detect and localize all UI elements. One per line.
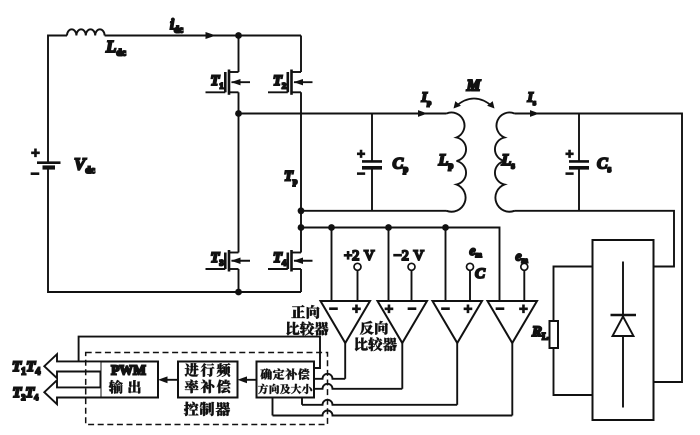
- load resistor RL: [550, 267, 593, 396]
- svg-text:em: em: [470, 243, 483, 259]
- svg-text:+: +: [519, 302, 527, 318]
- wire T1 source to midpoint: [238, 92, 240, 113]
- node dot sense 2: [385, 224, 392, 231]
- wire comparator sense line: [301, 228, 500, 302]
- svg-text:+: +: [352, 302, 360, 318]
- wire T2 source leg: [300, 92, 302, 252]
- output arrow T2T4: [44, 380, 100, 404]
- wire sense to U1: [331, 228, 333, 302]
- node dot sense at leg: [298, 224, 305, 231]
- comparator U1 forward: [321, 301, 371, 343]
- wire bridge to tank top: [239, 113, 447, 115]
- node dot sense 3: [442, 224, 449, 231]
- svg-text:T2: T2: [273, 73, 286, 91]
- wire battery to bottom rail: [48, 168, 301, 293]
- wire U2 output: [401, 343, 403, 389]
- label quedingbuchang: [260, 368, 309, 379]
- svg-text:M: M: [466, 78, 482, 95]
- current arrow Is: [530, 110, 540, 117]
- wire U4 output: [511, 343, 513, 416]
- wire sense to U2: [388, 228, 390, 302]
- svg-text:Cp: Cp: [393, 156, 409, 175]
- dashed controller boundary: [86, 353, 328, 425]
- terminal em C circle: [467, 263, 474, 270]
- transistor T3: [206, 250, 251, 272]
- svg-text:T3: T3: [211, 250, 224, 268]
- label kongzhiqi: [184, 402, 230, 416]
- arrow freq to PWM: [163, 379, 178, 381]
- arrow determine to freq: [242, 379, 257, 381]
- svg-text:+: +: [385, 302, 393, 318]
- svg-text:PWM: PWM: [111, 363, 146, 378]
- wire secondary top: [515, 114, 683, 383]
- terminal +2V circle: [354, 263, 361, 270]
- svg-text:T2T4: T2T4: [13, 385, 39, 402]
- wire T4 source: [300, 269, 302, 292]
- svg-text:−: −: [496, 302, 504, 318]
- wire top rail: [48, 36, 67, 163]
- terminal -2V circle: [408, 263, 415, 270]
- svg-text:T1: T1: [211, 73, 224, 91]
- svg-text:T1T4: T1T4: [12, 359, 40, 378]
- wire U1 output: [344, 343, 346, 379]
- node dot top bridge: [235, 32, 242, 39]
- wire -2V to U2: [411, 271, 413, 301]
- svg-text:−: −: [357, 166, 365, 181]
- transistor T1: [206, 70, 251, 95]
- label shuchu: [109, 380, 141, 394]
- svg-text:Cs: Cs: [597, 156, 612, 175]
- label jinxingpin: [185, 363, 231, 377]
- wire em to U3: [469, 271, 471, 301]
- wire secondary bottom: [515, 211, 675, 267]
- inductor Ls: [495, 113, 515, 212]
- wire midpoint to T3 drain: [238, 114, 240, 253]
- svg-text:Ldc: Ldc: [105, 37, 126, 59]
- svg-text:+: +: [357, 147, 365, 162]
- svg-text:−: −: [329, 302, 337, 318]
- svg-text:Tp: Tp: [284, 169, 298, 187]
- wire +2V to U1: [357, 271, 359, 301]
- svg-text:idc: idc: [170, 17, 183, 35]
- svg-text:+2V: +2V: [344, 248, 375, 264]
- svg-text:−: −: [408, 302, 416, 318]
- wire T3 source: [238, 269, 240, 292]
- wire feedback to gate arrow: [79, 337, 320, 368]
- battery Vdc: [37, 163, 61, 168]
- svg-text:Is: Is: [527, 91, 536, 108]
- wire rail to bridge: [105, 35, 301, 37]
- transistor T2: [268, 70, 313, 95]
- transistor T4: [268, 250, 313, 272]
- output arrow T1T4: [44, 354, 100, 378]
- label zhengxiang bijiaoqi: [291, 305, 319, 319]
- svg-text:−: −: [566, 166, 574, 181]
- inductor Lp: [447, 113, 467, 212]
- node dot tank bottom: [298, 207, 305, 214]
- wire T2 drain: [300, 36, 302, 73]
- svg-text:+: +: [31, 146, 39, 162]
- wire sense to U3: [445, 228, 447, 302]
- diode D: [622, 262, 624, 408]
- block PWM output: [101, 362, 159, 398]
- block determine compensation: [257, 362, 315, 398]
- comparator U3: [433, 301, 483, 343]
- svg-text:+: +: [566, 147, 574, 162]
- rectifier block: [593, 240, 654, 420]
- node dot bottom rail: [235, 289, 242, 296]
- svg-text:−2V: −2V: [394, 248, 425, 264]
- node dot bridge midpoint A: [235, 110, 242, 117]
- svg-text:em: em: [516, 249, 529, 265]
- wire T1 drain: [238, 36, 240, 73]
- capacitor Cp: [362, 114, 382, 211]
- terminal em 4 circle: [521, 263, 528, 270]
- label fanxiang bijiaoqi: [360, 321, 388, 335]
- coupling arrow M: [456, 99, 493, 107]
- svg-text:Lp: Lp: [438, 152, 454, 171]
- inductor Ldc: [67, 29, 105, 35]
- svg-text:C: C: [475, 266, 486, 282]
- block frequency compensation: [178, 362, 238, 398]
- svg-text:+: +: [464, 302, 472, 318]
- svg-text:RL: RL: [531, 324, 548, 342]
- current arrow i_dc: [206, 32, 217, 39]
- capacitor Cs: [569, 114, 589, 211]
- svg-text:Ip: Ip: [421, 91, 432, 108]
- wire em to U4: [523, 271, 525, 301]
- svg-text:−: −: [31, 167, 39, 183]
- svg-text:T4: T4: [273, 250, 287, 268]
- comparator U2 reverse: [378, 301, 428, 343]
- node dot sense 1: [328, 224, 335, 231]
- svg-text:−: −: [441, 302, 449, 318]
- label fangxiangjidaxiao: [258, 384, 312, 394]
- svg-text:Ls: Ls: [501, 152, 516, 171]
- label lbuchang: [185, 380, 231, 394]
- current arrow Ip: [418, 110, 428, 117]
- wire U3 output: [456, 343, 458, 405]
- svg-text:Vdc: Vdc: [74, 155, 95, 177]
- wire tank bottom: [301, 210, 447, 212]
- comparator U4: [488, 301, 538, 343]
